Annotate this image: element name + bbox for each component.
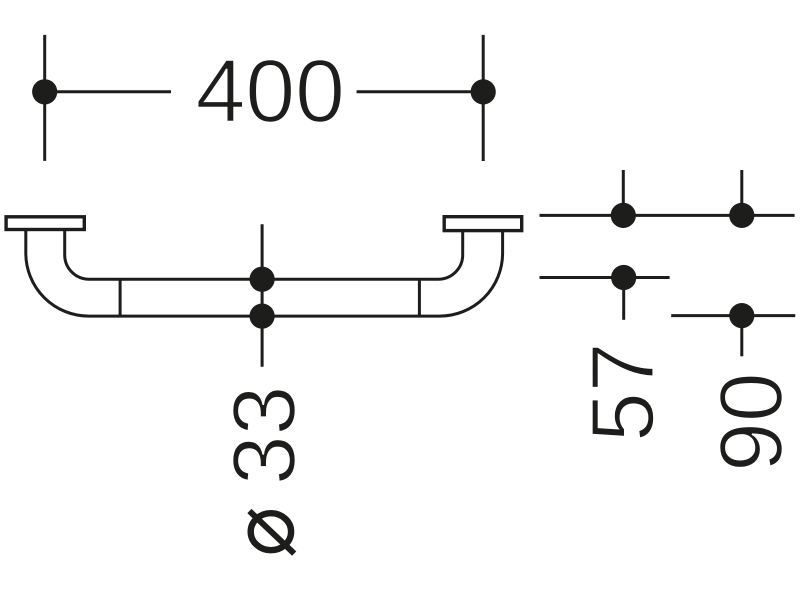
dim 90 lower leader (671, 314, 795, 317)
dim 400 leader left segment (45, 90, 171, 93)
svg-text:400: 400 (196, 41, 345, 141)
dim point 33 bottom (250, 304, 275, 329)
dim point 400 right (471, 79, 496, 104)
svg-text:90: 90 (701, 372, 801, 472)
dim 57 stub below (622, 278, 625, 320)
dim point 33 top (250, 267, 275, 292)
dim point 400 left (32, 79, 57, 104)
dim 400 leader right segment (357, 90, 484, 93)
dim 400 right extension line (482, 35, 485, 161)
svg-text:57: 57 (572, 342, 672, 442)
diameter symbol slash (249, 511, 294, 554)
left flange plate (6, 217, 84, 230)
dim 90 stub below (740, 316, 743, 357)
dim point wall right (729, 203, 754, 228)
weld seam right (418, 279, 421, 316)
tube inner contour (top edge with bends) (65, 231, 463, 280)
dim 400 left extension line (43, 35, 46, 161)
dim point 90 (729, 303, 754, 328)
diameter symbol ring (251, 513, 291, 550)
wall line dim leader (top right) (540, 214, 795, 217)
dim 90 stub above right point (740, 170, 743, 215)
dim point 57 (611, 265, 636, 290)
svg-text:33: 33 (214, 386, 314, 486)
dim 57 lower leader (540, 276, 670, 279)
dim 33 extension line (261, 224, 264, 366)
tube outer contour (bottom edge with bends) (26, 231, 503, 317)
right flange plate (444, 217, 522, 231)
weld seam left (119, 279, 122, 316)
dim 57 stub above left point (622, 170, 625, 215)
dim point wall left (611, 203, 636, 228)
